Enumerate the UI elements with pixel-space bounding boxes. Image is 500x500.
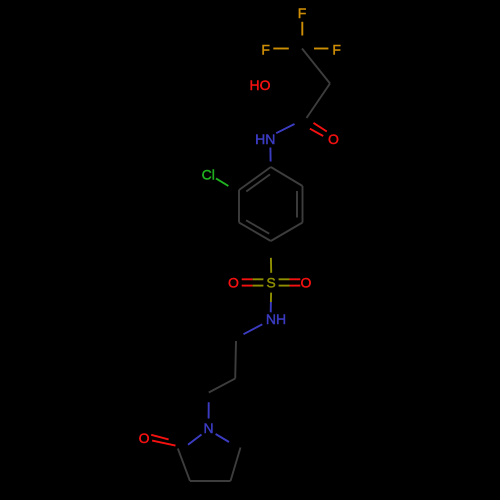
ring inner double UR-LR	[296, 191, 298, 218]
bond C4r-C5r	[231, 448, 241, 482]
ring edge LL-UL	[238, 190, 240, 223]
bond C5a-C6	[307, 84, 331, 119]
bond C6=O second line	[310, 129, 323, 136]
bond F3-C4 (F half)	[314, 48, 328, 50]
bond N(ring)-C(carbonyl) (N half)	[188, 435, 202, 445]
bond S=O left line2 (S half)	[253, 285, 264, 287]
bond S=O left line1 (S half)	[253, 278, 264, 280]
svg-text:NH: NH	[266, 311, 286, 327]
bond N(amide)-C6 (N half)	[276, 124, 294, 133]
svg-text:F: F	[298, 5, 307, 21]
svg-text:Cl: Cl	[202, 167, 215, 183]
bond C3r-C4r	[190, 480, 231, 482]
svg-text:S: S	[266, 275, 275, 291]
svg-text:HN: HN	[255, 131, 275, 147]
svg-text:O: O	[301, 275, 312, 291]
bond S=O left line2 (O half)	[242, 285, 253, 287]
bond S-N(sulfonamide) (N half)	[270, 302, 272, 312]
ring edge LR-B	[271, 223, 303, 242]
svg-text:O: O	[328, 131, 339, 147]
svg-text:O: O	[139, 430, 150, 446]
bond S=O right line2 (O half)	[290, 285, 301, 287]
bond ring-S (S half)	[270, 258, 272, 273]
svg-text:O: O	[228, 275, 239, 291]
bond S=O right line1 (O half)	[290, 278, 301, 280]
bond C4-C5a	[302, 49, 330, 84]
svg-text:N: N	[204, 420, 214, 436]
bond S=O right line2 (S half)	[279, 285, 290, 287]
bond S=O right line1 (S half)	[279, 278, 290, 280]
ring inner double UL-T	[246, 174, 270, 191]
bond S=O left line1 (O half)	[242, 278, 253, 280]
bond C(carbonyl)=O main line (O part)	[152, 441, 175, 446]
bond F1-C4 (F half)	[301, 22, 303, 36]
bond C3-N(ring) (N half)	[208, 402, 210, 418]
svg-text:HO: HO	[250, 77, 271, 93]
bond N(ring)-C5r (N half)	[216, 434, 229, 442]
bond C(carbonyl)-C3r	[178, 449, 190, 482]
bond Cl-ring (Cl half)	[216, 178, 228, 186]
ring edge UR-LR	[302, 186, 304, 223]
svg-text:F: F	[332, 42, 341, 58]
bond S-N(sulfonamide) (S half)	[270, 293, 272, 302]
bond C1-C2	[234, 341, 237, 379]
bond F2-C4 (F half)	[273, 48, 289, 50]
ring edge B-LL	[239, 223, 271, 242]
ring edge T-UR	[271, 167, 303, 186]
bond C2-C3	[209, 379, 235, 393]
ring inner double LL-B	[246, 220, 269, 233]
ring edge UL-T	[239, 167, 271, 190]
bond C6=O main line (O part)	[314, 123, 327, 132]
svg-text:F: F	[261, 42, 270, 58]
bond C(carbonyl)=O second line	[151, 435, 168, 440]
bond N(amide)-ring (N half)	[269, 148, 271, 162]
bond N(sulfonamide)-C1 (N half)	[244, 324, 263, 334]
